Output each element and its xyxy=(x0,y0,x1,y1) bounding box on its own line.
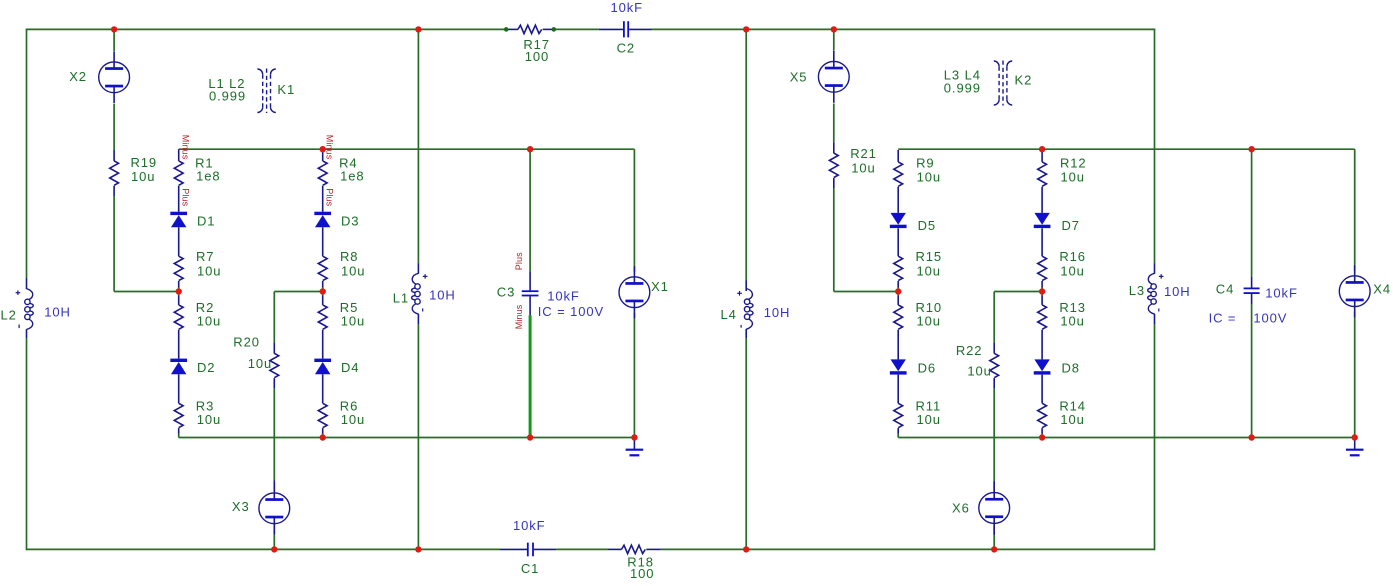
subcircuit X6 xyxy=(979,493,1010,524)
resistor R21 xyxy=(833,143,835,154)
resistor R13 xyxy=(1038,305,1047,329)
wire mid stub X5 branch to node xyxy=(834,291,898,293)
wire minus-net horizontal left xyxy=(179,148,635,150)
svg-text:D5: D5 xyxy=(918,218,936,233)
inductor L2 xyxy=(26,278,28,289)
diode D2 xyxy=(170,359,187,362)
svg-text:10u: 10u xyxy=(917,314,941,329)
svg-text:10H: 10H xyxy=(429,287,456,302)
wire mid stub R22 to node xyxy=(994,291,1042,293)
diode D7 xyxy=(1034,213,1049,225)
svg-text:C1: C1 xyxy=(521,561,539,576)
svg-text:X2: X2 xyxy=(69,69,87,84)
junction X2 top xyxy=(111,26,117,32)
lead column A segment xyxy=(178,149,180,161)
lead column D segment xyxy=(1041,187,1043,213)
svg-text:R20: R20 xyxy=(233,335,260,350)
svg-text:100: 100 xyxy=(630,566,654,581)
svg-text:X5: X5 xyxy=(790,69,808,84)
svg-text:R7: R7 xyxy=(196,249,214,264)
wire C3 column lower highlighted xyxy=(529,315,532,437)
wire C4 column xyxy=(1251,149,1253,277)
junction col A mid xyxy=(176,288,182,294)
lead column B segment xyxy=(322,186,324,212)
lead column A segment xyxy=(178,281,180,287)
svg-text:0.999: 0.999 xyxy=(944,81,981,96)
ground at X1 xyxy=(633,438,635,450)
svg-text:100: 100 xyxy=(525,49,549,64)
svg-text:L1: L1 xyxy=(393,291,409,306)
resistor R8 xyxy=(318,256,327,280)
svg-text:D6: D6 xyxy=(918,360,936,375)
svg-text:Plus: Plus xyxy=(514,252,524,270)
svg-text:10u: 10u xyxy=(248,356,272,371)
resistor R16 xyxy=(1038,256,1047,280)
svg-text:10u: 10u xyxy=(1061,170,1085,185)
wire column D green gaps xyxy=(1041,287,1043,296)
diode D3 xyxy=(314,212,331,215)
capacitor C2 xyxy=(599,28,623,30)
svg-text:10kF: 10kF xyxy=(611,0,644,15)
lead column D segment xyxy=(1041,375,1043,404)
wire bottom rail right segment xyxy=(661,548,1155,550)
svg-text:X6: X6 xyxy=(952,501,970,516)
wire X4 column xyxy=(1354,149,1356,271)
svg-text:IC = 100V: IC = 100V xyxy=(538,304,604,319)
svg-text:L4: L4 xyxy=(721,307,737,322)
svg-text:Minus: Minus xyxy=(325,135,335,160)
lead column D segment xyxy=(1041,228,1043,256)
svg-text:R12: R12 xyxy=(1060,156,1087,171)
svg-text:10u: 10u xyxy=(131,169,155,184)
svg-text:10u: 10u xyxy=(917,170,941,185)
subcircuit X4 xyxy=(1339,276,1370,307)
terminal dot R17 left xyxy=(504,27,509,32)
subcircuit X1 xyxy=(619,277,650,308)
wire mid stub X2 branch to node xyxy=(114,291,179,293)
lead column B segment xyxy=(322,149,324,161)
junction C3 top xyxy=(527,146,533,152)
svg-text:Minus: Minus xyxy=(514,304,524,329)
resistor R14 xyxy=(1038,403,1047,427)
wire X2 column xyxy=(113,29,115,51)
diode D6 xyxy=(891,359,906,371)
svg-text:C2: C2 xyxy=(617,41,635,56)
wire left border vertical lower xyxy=(26,338,28,550)
wire top rail left segment xyxy=(27,28,507,30)
inductor L3 xyxy=(1154,264,1156,274)
lead column A segment xyxy=(178,330,180,359)
diode D8 xyxy=(1034,359,1049,371)
capacitor C1 xyxy=(499,548,527,550)
lead column D segment xyxy=(1041,281,1043,287)
resistor R17 xyxy=(506,28,518,30)
lead column B segment xyxy=(322,330,324,359)
svg-text:10u: 10u xyxy=(1060,264,1084,279)
svg-text:10H: 10H xyxy=(764,305,791,320)
lead column D segment xyxy=(1041,428,1043,433)
diode D4 xyxy=(314,359,331,362)
svg-text:10u: 10u xyxy=(1060,314,1084,329)
svg-text:10u: 10u xyxy=(917,412,941,427)
polarity plus L4 xyxy=(737,291,742,296)
polarity plus L2 xyxy=(16,290,21,295)
svg-text:10u: 10u xyxy=(341,314,365,329)
svg-text:C4: C4 xyxy=(1216,281,1234,296)
ground at X4 xyxy=(1354,438,1356,450)
lead column C segment xyxy=(897,281,899,287)
svg-text:10u: 10u xyxy=(917,264,941,279)
wire bottom rail between C1 and R18 xyxy=(556,548,608,550)
lead column D segment xyxy=(1041,330,1043,360)
wire column C green gaps xyxy=(897,287,899,296)
svg-text:Plus: Plus xyxy=(181,188,191,206)
junction C4 top xyxy=(1248,146,1254,152)
lead column B segment xyxy=(322,281,324,287)
svg-text:10u: 10u xyxy=(197,412,221,427)
polarity tick L2 xyxy=(18,325,20,329)
junction X6 bottom xyxy=(991,546,997,552)
wire top rail between R17 and C2 xyxy=(554,28,599,30)
junction R4 minus xyxy=(320,146,326,152)
resistor R3 xyxy=(174,403,183,427)
svg-text:10kF: 10kF xyxy=(513,518,546,533)
subcircuit X5 xyxy=(818,61,849,92)
svg-text:D3: D3 xyxy=(341,214,359,229)
svg-text:X4: X4 xyxy=(1373,281,1391,296)
diode D1 xyxy=(170,212,187,215)
mutual coupling K1 xyxy=(257,69,275,114)
wire minus-net horizontal right xyxy=(898,148,1354,150)
subcircuit X3 xyxy=(259,493,290,524)
svg-text:100V: 100V xyxy=(1253,311,1287,326)
wire R20/X3 column xyxy=(273,292,275,344)
junction X5 top xyxy=(831,26,837,32)
lead column C segment xyxy=(897,330,899,360)
resistor R12 xyxy=(1038,162,1047,186)
svg-text:10u: 10u xyxy=(341,264,365,279)
svg-text:R16: R16 xyxy=(1059,249,1086,264)
svg-text:C3: C3 xyxy=(497,284,515,299)
svg-text:D1: D1 xyxy=(197,214,215,229)
polarity plus L1 xyxy=(423,274,428,279)
lead column C segment xyxy=(897,296,899,305)
resistor R20 xyxy=(273,343,275,354)
lead column D segment xyxy=(1041,150,1043,162)
lead column C segment xyxy=(897,228,899,256)
junction col B mid xyxy=(320,288,326,294)
polarity tick L4 xyxy=(740,325,742,328)
svg-text:R8: R8 xyxy=(340,249,358,264)
wire right border vertical upper xyxy=(1154,29,1156,264)
svg-text:X3: X3 xyxy=(232,499,250,514)
inductor L1 xyxy=(417,264,419,274)
resistor R15 xyxy=(894,256,903,280)
junction C4 bottom xyxy=(1248,434,1254,440)
resistor R4 xyxy=(318,161,327,185)
svg-text:R19: R19 xyxy=(131,155,158,170)
lead column D segment xyxy=(1041,296,1043,305)
svg-text:K1: K1 xyxy=(277,82,295,97)
svg-text:R15: R15 xyxy=(916,249,943,264)
svg-text:10H: 10H xyxy=(1164,284,1191,299)
resistor R22 xyxy=(993,343,995,354)
lead column A segment xyxy=(178,296,180,305)
wire R22/X6 column xyxy=(993,292,995,344)
wire right border vertical lower xyxy=(1154,324,1156,550)
svg-text:K2: K2 xyxy=(1015,72,1033,87)
junction R6 bottom xyxy=(320,434,326,440)
subcircuit X2 xyxy=(99,62,130,93)
capacitor C4 xyxy=(1251,277,1253,288)
polarity tick L3 xyxy=(1158,308,1160,311)
svg-text:IC =: IC = xyxy=(1209,311,1237,326)
svg-text:10u: 10u xyxy=(197,264,221,279)
wire L4 column xyxy=(745,29,747,280)
svg-text:X1: X1 xyxy=(651,279,669,294)
junction R14 bottom xyxy=(1039,434,1045,440)
diode D5 xyxy=(891,213,906,225)
lead column A segment xyxy=(178,227,180,256)
wire lower horizontal left xyxy=(179,437,635,439)
svg-text:L2: L2 xyxy=(1,308,17,323)
wire bottom rail left segment xyxy=(27,548,500,550)
resistor R11 xyxy=(894,403,903,427)
svg-text:10kF: 10kF xyxy=(1265,286,1298,301)
resistor R19 xyxy=(113,150,115,161)
lead column C segment xyxy=(897,428,899,433)
inductor L4 xyxy=(745,281,747,292)
lead column A segment xyxy=(178,374,180,403)
svg-text:10u: 10u xyxy=(967,364,991,379)
resistor R5 xyxy=(318,305,327,329)
junction L1 top xyxy=(415,26,421,32)
lead column A segment xyxy=(178,428,180,433)
lead column B segment xyxy=(322,428,324,433)
svg-text:Plus: Plus xyxy=(325,188,335,206)
svg-text:D2: D2 xyxy=(197,360,215,375)
lead column B segment xyxy=(322,227,324,256)
resistor R7 xyxy=(174,256,183,280)
resistor R6 xyxy=(318,403,327,427)
svg-text:10u: 10u xyxy=(851,161,875,176)
svg-text:R22: R22 xyxy=(956,343,983,358)
lead column C segment xyxy=(897,375,899,404)
junction col C mid xyxy=(895,288,901,294)
wire column A green gaps xyxy=(178,287,180,296)
junction X3 bottom xyxy=(271,546,277,552)
svg-text:D8: D8 xyxy=(1062,360,1080,375)
junction R12 top xyxy=(1039,146,1045,152)
lead column C segment xyxy=(897,150,899,162)
resistor R2 xyxy=(174,305,183,329)
junction L4 top xyxy=(743,26,749,32)
svg-text:R9: R9 xyxy=(916,156,934,171)
junction L1 bottom xyxy=(415,546,421,552)
lead column B segment xyxy=(322,296,324,305)
svg-text:10u: 10u xyxy=(197,314,221,329)
lead column A segment xyxy=(178,186,180,212)
svg-text:L3: L3 xyxy=(1129,283,1145,298)
svg-text:D7: D7 xyxy=(1062,218,1080,233)
resistor R9 xyxy=(894,162,903,186)
terminal dot R17 right xyxy=(552,27,557,32)
lead column C segment xyxy=(897,187,899,213)
wire left border vertical upper xyxy=(26,29,28,278)
wire lower horizontal right xyxy=(898,437,1354,439)
wire column B green gaps xyxy=(322,287,324,296)
wire X1 column xyxy=(633,149,635,272)
svg-text:1e8: 1e8 xyxy=(340,168,364,183)
junction X1 ground xyxy=(631,434,637,440)
svg-text:D4: D4 xyxy=(341,360,359,375)
mutual coupling K2 xyxy=(994,61,1012,106)
svg-text:10u: 10u xyxy=(341,412,365,427)
junction X4 ground xyxy=(1352,434,1358,440)
resistor R10 xyxy=(894,305,903,329)
polarity tick L1 xyxy=(422,308,424,311)
wire L1 column xyxy=(417,29,419,263)
wire mid stub R20 to node xyxy=(274,291,322,293)
wire top rail right segment xyxy=(652,28,1155,30)
junction C3 bottom xyxy=(527,434,533,440)
wire X5 column xyxy=(833,29,835,50)
svg-text:1e8: 1e8 xyxy=(196,168,220,183)
junction col D mid xyxy=(1039,288,1045,294)
svg-text:R21: R21 xyxy=(850,146,877,161)
capacitor C3 xyxy=(529,272,531,291)
svg-text:Minus: Minus xyxy=(181,135,191,160)
wire C3 column upper xyxy=(529,149,531,271)
resistor R1 xyxy=(174,161,183,185)
junction L4 bottom xyxy=(743,546,749,552)
svg-text:10u: 10u xyxy=(1060,412,1084,427)
svg-text:10kF: 10kF xyxy=(547,289,580,304)
polarity plus L3 xyxy=(1159,274,1164,279)
resistor R18 xyxy=(608,548,622,550)
svg-text:0.999: 0.999 xyxy=(209,88,246,103)
lead column B segment xyxy=(322,374,324,403)
svg-text:10H: 10H xyxy=(44,305,71,320)
